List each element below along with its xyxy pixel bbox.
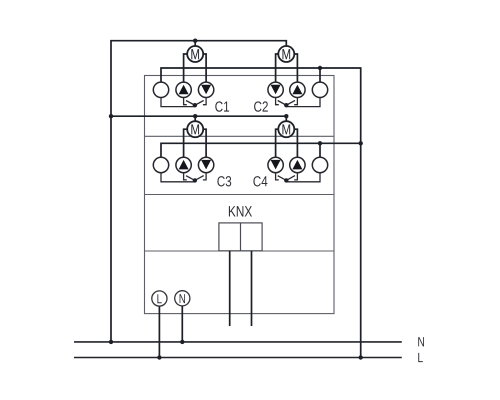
wire M3 left stub bbox=[184, 129, 188, 157]
wire terminal L drop bbox=[158, 306, 160, 357]
terminal C2 down bbox=[268, 82, 283, 97]
terminal C3 down bbox=[198, 157, 213, 172]
device section divider 1 bbox=[145, 135, 335, 137]
wire KNX minus bbox=[251, 251, 253, 326]
node C4 common tap bbox=[318, 141, 322, 145]
wire M4 right stub bbox=[294, 129, 297, 157]
label L bbox=[418, 353, 423, 362]
wire M1 right stub bbox=[203, 54, 206, 82]
wire L-feed left vertical and row1 top bbox=[111, 41, 286, 342]
terminal C2 common bbox=[312, 82, 327, 97]
node C2 common tap bbox=[318, 66, 322, 70]
terminal C1 up bbox=[176, 82, 191, 97]
node right vertical row2 tap bbox=[359, 141, 363, 145]
node terminal L on L bbox=[157, 355, 161, 359]
wire M4 left stub bbox=[276, 129, 279, 157]
node above M4 bbox=[284, 114, 288, 118]
wire M1 left stub bbox=[184, 54, 188, 82]
KNX bus connector bbox=[219, 223, 262, 251]
bus line N bbox=[74, 341, 402, 343]
wire M2 right stub bbox=[294, 54, 297, 82]
device outline box bbox=[145, 76, 335, 314]
terminal C1 down bbox=[198, 82, 213, 97]
device section divider 2 bbox=[145, 194, 335, 196]
switch C4 changeover bbox=[276, 173, 320, 183]
terminal C4 down bbox=[268, 157, 283, 172]
terminal C4 common bbox=[312, 157, 327, 172]
wire M3 drop bbox=[194, 116, 196, 121]
node left vertical on N bbox=[109, 340, 113, 344]
node right vertical on L bbox=[359, 355, 363, 359]
terminal L bbox=[152, 291, 167, 306]
switch C1 changeover bbox=[161, 97, 206, 107]
wire row2 empties horizontal bbox=[161, 143, 361, 157]
label C1 bbox=[215, 101, 229, 111]
terminal C3 up bbox=[176, 157, 191, 172]
wire row2 top bbox=[111, 116, 286, 121]
label C4 bbox=[253, 176, 267, 186]
label C2 bbox=[254, 101, 268, 111]
node row2 left tap bbox=[109, 114, 113, 118]
wire C2 common drop bbox=[319, 68, 321, 82]
wire M1 drop bbox=[194, 41, 196, 47]
label C3 bbox=[217, 176, 231, 186]
label KNX bbox=[229, 206, 252, 216]
wire M2 left stub bbox=[276, 54, 279, 82]
switch C2 changeover bbox=[276, 97, 320, 107]
terminal C1 common bbox=[153, 82, 168, 97]
wire C4 common drop bbox=[319, 143, 321, 157]
switch C3 changeover bbox=[161, 173, 206, 183]
motor M3 bbox=[187, 121, 203, 137]
device section divider 3 bbox=[145, 250, 335, 252]
terminal C2 up bbox=[290, 82, 305, 97]
wire M3 right stub bbox=[203, 129, 206, 157]
motor M2 bbox=[278, 46, 294, 62]
label N bbox=[418, 337, 424, 346]
terminal N bbox=[175, 291, 190, 306]
wire KNX plus bbox=[229, 251, 231, 326]
node above M1 bbox=[193, 39, 197, 43]
wire terminal N drop bbox=[181, 306, 183, 342]
node above M3 bbox=[193, 114, 197, 118]
terminal C4 up bbox=[290, 157, 305, 172]
motor M1 bbox=[187, 46, 203, 62]
bus line L bbox=[74, 357, 402, 359]
node terminal N on N bbox=[180, 340, 184, 344]
wire row1 empties horizontal and right vertical bbox=[161, 68, 361, 358]
terminal C3 common bbox=[153, 157, 168, 172]
motor M4 bbox=[278, 121, 294, 137]
